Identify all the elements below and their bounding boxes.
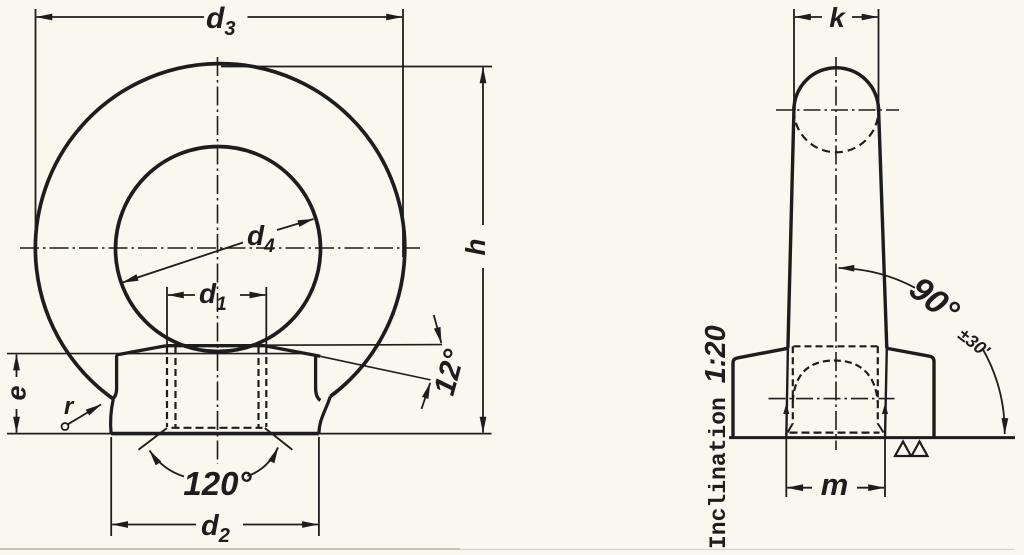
wire: h top extension line xyxy=(221,66,492,68)
wire: d3 dimension line left segment with arrow xyxy=(37,16,205,18)
wire: e dimension line lower part with arrow xyxy=(16,409,18,433)
ring outer circle (d3) xyxy=(35,64,404,399)
chamfer edge extension right (120 deg) xyxy=(265,428,293,450)
wire: d4 diameter leader upper segment xyxy=(277,219,314,230)
hidden bottom edge (dashed) xyxy=(790,432,880,434)
wire: d1 left extension line xyxy=(166,287,168,345)
wire: m dimension line right segment xyxy=(857,487,884,489)
nut base bottom edge xyxy=(111,432,319,436)
wire: horizontal reference line at e-top level xyxy=(7,353,302,355)
nut cone left silhouette with fillet r xyxy=(112,355,116,399)
label Inclination 1:20 (rotated) xyxy=(700,325,732,549)
shank flat extended through base, left xyxy=(786,348,788,437)
hidden thread line outer-right (dashed) xyxy=(265,346,267,427)
wire: k dimension line right segment xyxy=(852,16,878,18)
wire: d2 left extension line xyxy=(110,437,112,536)
wire: m left extension line xyxy=(785,438,787,498)
hidden thread line outer-left (dashed) xyxy=(166,346,168,427)
shank left silhouette (1:20 taper) xyxy=(788,107,794,348)
wire: m dimension line left segment xyxy=(787,487,812,489)
wire: vertical center line of side view xyxy=(835,57,837,450)
wire: k right extension line xyxy=(878,9,880,101)
shank right silhouette (1:20 taper) xyxy=(879,107,887,348)
leader for r with small circle xyxy=(62,423,69,430)
wire: circle horizontal center line xyxy=(776,109,899,111)
ring inner circle (d4) xyxy=(116,147,321,352)
hidden chamfer left (dashed) xyxy=(788,424,793,433)
wire: e dimension line upper part with arrow xyxy=(16,355,18,377)
wire: d4 diameter leader lower segment xyxy=(123,243,244,283)
base block outline right xyxy=(887,348,934,437)
wire: 12 deg lower arrow xyxy=(422,383,431,409)
wire: d3 left extension line xyxy=(35,9,37,257)
nut tapered top face right xyxy=(265,346,321,357)
hidden dome of hole (dashed) xyxy=(793,361,878,403)
nut tapered top face left xyxy=(116,346,166,355)
shank flat extended through base, right xyxy=(885,348,887,437)
wire: 12 deg upper arrow xyxy=(434,315,442,343)
eye hole circle, visible top half xyxy=(794,68,879,110)
wire: d1 dimension line left segment xyxy=(168,294,195,296)
chamfer edge extension left (120 deg) xyxy=(139,428,168,450)
svg-text:h: h xyxy=(460,238,491,255)
ground baseline of side view xyxy=(729,436,1015,439)
wire: tapered face extension (12 deg sloped thin line) xyxy=(320,356,430,380)
nut boss top face line xyxy=(166,344,265,347)
wire: horizontal center line (dash-dot) xyxy=(20,247,420,249)
wire: d2 dimension line right segment xyxy=(243,524,318,526)
faint page artifact line at bottom xyxy=(0,548,460,550)
hidden boss top edge (dashed) xyxy=(794,345,882,347)
svg-text:120°: 120° xyxy=(183,465,252,502)
wire: k dimension line left segment xyxy=(795,16,822,18)
wire: hole horizontal center line xyxy=(769,398,895,400)
wire: d3 right extension line xyxy=(402,9,404,257)
fillet blend to base, right xyxy=(319,397,330,434)
fillet blend to base, left xyxy=(111,399,114,434)
hidden chamfer right (dashed) xyxy=(878,424,884,433)
svg-text:k: k xyxy=(829,2,846,33)
hidden thread line inner-left (dashed) xyxy=(174,347,176,428)
wire: 90 deg arc upper segment with arrow xyxy=(839,268,916,288)
wire: horizontal reference line from boss top (12 deg datum) xyxy=(265,344,443,347)
taper direction arrowhead left xyxy=(783,404,789,415)
wire: baseline thin extension right xyxy=(319,433,492,435)
hidden thread hole left (dashed) xyxy=(792,346,794,424)
svg-text:e: e xyxy=(2,385,32,400)
wire: d2 dimension line left segment xyxy=(112,524,196,526)
wire: 90 deg arc lower segment with arrow xyxy=(983,350,1005,435)
wire: baseline thin extension left xyxy=(7,433,111,435)
hidden chamfer bottom line (dashed) xyxy=(172,427,263,429)
hidden thread line inner-right (dashed) xyxy=(257,347,259,428)
hidden thread hole right (dashed) xyxy=(877,346,879,424)
nut cone right silhouette with fillet r xyxy=(316,357,321,401)
eye hole circle, hidden bottom half (dashed) xyxy=(794,110,879,152)
wire: d2 right extension line xyxy=(318,437,320,536)
wire: h dimension line lower with arrow xyxy=(482,268,484,433)
wire: k left extension line xyxy=(793,9,795,101)
label 90deg +-30' xyxy=(902,269,1005,361)
base block outline left xyxy=(733,348,788,437)
wire: vertical center line (dash-dot) xyxy=(217,57,219,464)
ground hatch symbol (two triangles) xyxy=(895,442,928,457)
wire: d3 dimension line right segment with arrow xyxy=(248,16,403,18)
wire: 120 deg arc leader left with arrow xyxy=(150,451,185,477)
wire: d1 dimension line right segment xyxy=(240,294,265,296)
svg-text:m: m xyxy=(821,467,849,502)
wire: d1 right extension line xyxy=(265,287,267,345)
wire: m right extension line xyxy=(884,438,886,498)
wire: h dimension line upper with arrow xyxy=(482,68,484,226)
taper direction arrowhead right xyxy=(882,404,888,415)
wire: 120 deg arc leader right with arrow xyxy=(248,448,279,477)
